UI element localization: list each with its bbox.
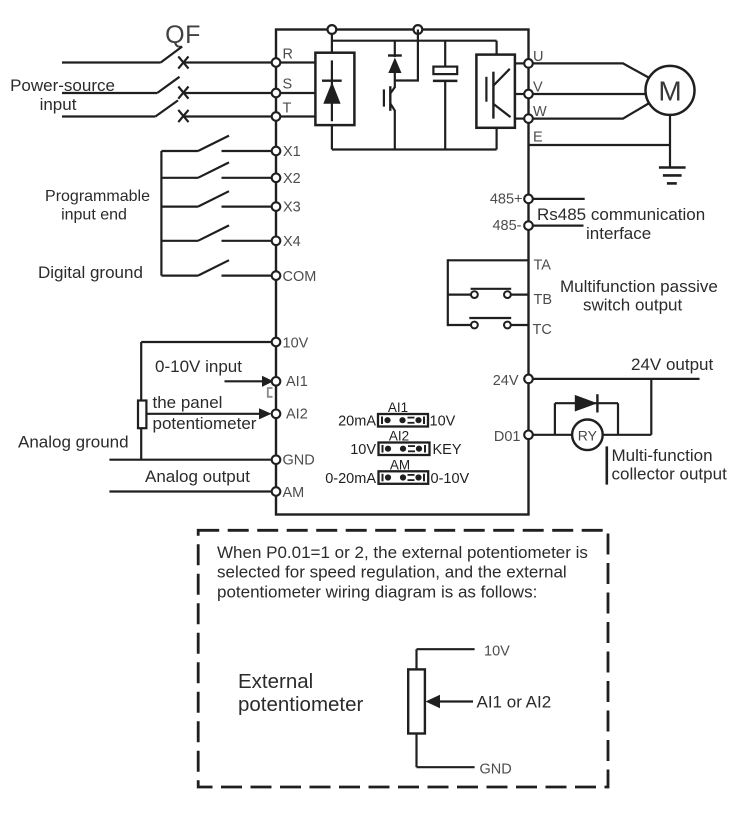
svg-text:V: V xyxy=(533,80,543,96)
DC bus capacitor C xyxy=(433,41,458,150)
svg-text:10V: 10V xyxy=(283,336,309,352)
svg-text:Programmable: Programmable xyxy=(45,188,150,205)
svg-text:TA: TA xyxy=(534,258,552,274)
terminal W xyxy=(524,104,547,123)
svg-text:AM: AM xyxy=(283,485,305,501)
jumper block AI2 xyxy=(350,429,462,458)
gray bracket under AI1 xyxy=(268,388,273,397)
terminal R xyxy=(272,47,293,67)
svg-text:Multi-function: Multi-function xyxy=(612,446,713,465)
label External potentiometer xyxy=(238,670,364,716)
svg-text:GND: GND xyxy=(283,453,315,469)
label Digital ground xyxy=(38,263,143,282)
svg-text:AI1: AI1 xyxy=(286,374,308,390)
svg-text:COM: COM xyxy=(283,269,317,285)
contact TC (two circles + bar) xyxy=(448,318,529,328)
svg-text:0-20mA: 0-20mA xyxy=(325,471,376,487)
label Analog output xyxy=(145,467,250,486)
label 0-10V input xyxy=(155,357,242,376)
wire V to motor xyxy=(529,93,647,95)
terminal 485- xyxy=(492,218,532,234)
svg-text:input end: input end xyxy=(61,207,127,224)
wiper arrow AI1 or AI2 xyxy=(426,693,552,712)
svg-text:10V: 10V xyxy=(430,414,456,430)
terminal AI2 xyxy=(272,407,308,423)
svg-text:potentiometer wiring diagram i: potentiometer wiring diagram is as follo… xyxy=(217,583,537,602)
dashed note box xyxy=(198,530,608,787)
terminal COM xyxy=(272,269,317,285)
svg-text:input: input xyxy=(40,95,77,114)
main inverter enclosure box xyxy=(276,30,529,515)
breaker pole R: wire, blade, X mark xyxy=(62,47,272,69)
svg-text:R: R xyxy=(283,47,293,63)
arrow into AI1 xyxy=(225,376,274,387)
svg-text:485-: 485- xyxy=(492,218,521,234)
svg-text:X2: X2 xyxy=(283,171,301,187)
terminal 24V xyxy=(493,373,533,389)
node junction on top edge (left) xyxy=(328,25,337,34)
svg-text:GND: GND xyxy=(480,762,512,778)
wire E (earth) xyxy=(529,115,671,168)
svg-text:10V: 10V xyxy=(350,442,376,458)
terminal D01 xyxy=(494,429,533,445)
svg-text:X1: X1 xyxy=(283,144,301,160)
svg-text:Power-source: Power-source xyxy=(10,76,115,95)
freewheel diode loop xyxy=(555,394,618,435)
ground symbol (motor earth) xyxy=(659,168,686,184)
svg-text:KEY: KEY xyxy=(433,442,462,458)
wire GND row (analog ground) xyxy=(109,459,276,461)
label Programmable input end xyxy=(45,188,150,224)
terminal S xyxy=(272,77,292,98)
svg-text:AI2: AI2 xyxy=(286,407,308,423)
wire 24V output xyxy=(529,378,700,380)
wire 10V to panel potentiometer xyxy=(141,342,276,401)
DC bus positive rail xyxy=(332,30,497,53)
wire W to motor xyxy=(529,104,649,119)
switch X3 xyxy=(161,191,271,206)
terminal X4 xyxy=(272,234,301,250)
svg-text:E: E xyxy=(533,130,543,146)
brake diode (bar + filled triangle) xyxy=(388,41,402,88)
terminal GND xyxy=(272,453,315,469)
breaker QF label xyxy=(165,21,201,49)
node junction on top edge (right) xyxy=(414,25,423,34)
svg-text:RY: RY xyxy=(578,428,598,444)
svg-text:AI1: AI1 xyxy=(388,400,408,415)
wire 485- xyxy=(529,225,584,227)
svg-text:the panel: the panel xyxy=(153,393,223,412)
svg-text:24V output: 24V output xyxy=(631,355,714,374)
label Analog ground xyxy=(18,433,129,452)
svg-text:20mA: 20mA xyxy=(338,414,376,430)
inverter DC leads xyxy=(496,41,498,150)
switch COM xyxy=(161,260,271,275)
svg-text:AI1 or AI2: AI1 or AI2 xyxy=(477,693,552,712)
terminal E label xyxy=(533,130,543,146)
svg-text:collector output: collector output xyxy=(612,465,728,484)
label Power-source input xyxy=(10,76,115,114)
terminal AI1 xyxy=(272,374,308,390)
svg-text:When P0.01=1 or 2, the externa: When P0.01=1 or 2, the external potentio… xyxy=(217,543,588,562)
wire S into rectifier xyxy=(276,92,315,94)
wire AM row (analog output) xyxy=(109,490,276,492)
jumper block AM xyxy=(325,458,469,487)
note text xyxy=(217,543,588,602)
svg-text:0-10V input: 0-10V input xyxy=(155,357,242,376)
terminal TA label xyxy=(534,258,552,274)
label Rs485 communication interface xyxy=(537,205,705,243)
terminal TB label xyxy=(534,292,553,308)
panel potentiometer resistor xyxy=(138,401,146,429)
terminal T xyxy=(272,101,292,121)
switch X4 xyxy=(161,225,271,240)
wire T into rectifier xyxy=(276,115,315,117)
svg-text:Analog output: Analog output xyxy=(145,467,250,486)
terminal AM xyxy=(272,485,305,501)
svg-text:Multifunction passive: Multifunction passive xyxy=(560,277,718,296)
svg-text:0-10V: 0-10V xyxy=(431,471,470,487)
label Multi-function collector output with bar xyxy=(607,446,727,485)
switch X2 xyxy=(161,162,271,177)
svg-text:W: W xyxy=(533,104,547,120)
relay contact group TA/TB/TC wires xyxy=(448,259,529,326)
terminal 485+ xyxy=(490,192,533,208)
arrow into AI2 xyxy=(146,408,271,419)
label 24V output xyxy=(631,355,714,374)
wire R into rectifier xyxy=(276,61,315,63)
svg-text:External: External xyxy=(238,670,313,693)
wire U to motor xyxy=(529,63,649,77)
jumper block AI1 xyxy=(338,400,456,430)
breaker pole S: wire, blade, X mark xyxy=(62,77,272,99)
inverter module box xyxy=(476,55,515,128)
svg-text:485+: 485+ xyxy=(490,192,523,208)
svg-text:S: S xyxy=(283,77,293,93)
svg-text:T: T xyxy=(283,101,292,117)
relay coil RY xyxy=(572,420,603,451)
svg-text:selected for speed regulation,: selected for speed regulation, and the e… xyxy=(217,563,567,582)
svg-text:10V: 10V xyxy=(484,644,510,660)
rectifier diode D (bar + filled triangle) xyxy=(322,60,342,121)
svg-text:X3: X3 xyxy=(283,200,301,216)
terminal U xyxy=(524,49,543,68)
svg-text:Rs485 communication: Rs485 communication xyxy=(537,205,705,224)
svg-text:potentiometer: potentiometer xyxy=(153,414,257,433)
svg-text:M: M xyxy=(658,76,681,107)
rectifier module box xyxy=(315,53,354,125)
terminal X1 xyxy=(272,144,301,160)
svg-text:switch output: switch output xyxy=(583,296,682,315)
svg-text:D01: D01 xyxy=(494,429,521,445)
svg-text:interface: interface xyxy=(586,224,651,243)
DC bus negative rail xyxy=(332,125,497,149)
terminal 10V xyxy=(272,336,309,352)
wire to 10V (external pot top) xyxy=(417,644,511,670)
external potentiometer resistor xyxy=(408,669,425,733)
wire potentiometer to analog ground xyxy=(140,428,142,460)
label the panel potentiometer xyxy=(153,393,257,433)
terminal V xyxy=(524,80,543,99)
wire from right junction down to brake chopper xyxy=(395,30,419,81)
wire 485+ xyxy=(529,198,585,200)
svg-text:Analog ground: Analog ground xyxy=(18,433,129,452)
svg-text:24V: 24V xyxy=(493,373,519,389)
wire D01 row xyxy=(529,379,652,435)
svg-text:Digital ground: Digital ground xyxy=(38,263,143,282)
inverter IGBT symbol xyxy=(486,69,510,119)
terminal TC label xyxy=(533,322,552,338)
svg-text:TB: TB xyxy=(534,292,553,308)
brake IGBT transistor xyxy=(384,86,395,149)
terminal X2 xyxy=(272,171,301,187)
switch X1 xyxy=(161,136,271,151)
motor M xyxy=(646,66,695,115)
svg-text:TC: TC xyxy=(533,322,552,338)
wires U V W from inverter to terminals xyxy=(515,63,529,118)
svg-text:X4: X4 xyxy=(283,234,301,250)
contact TB (two circles + bar) xyxy=(448,289,529,298)
breaker pole T: wire, blade, X mark xyxy=(62,100,272,122)
svg-text:potentiometer: potentiometer xyxy=(238,693,364,716)
svg-text:U: U xyxy=(533,49,543,65)
svg-text:QF: QF xyxy=(165,21,201,49)
label Multifunction passive switch output xyxy=(560,277,718,315)
terminal X3 xyxy=(272,200,301,216)
wire to GND (external pot bottom) xyxy=(417,734,512,778)
digital input ladder left rail xyxy=(160,151,162,276)
